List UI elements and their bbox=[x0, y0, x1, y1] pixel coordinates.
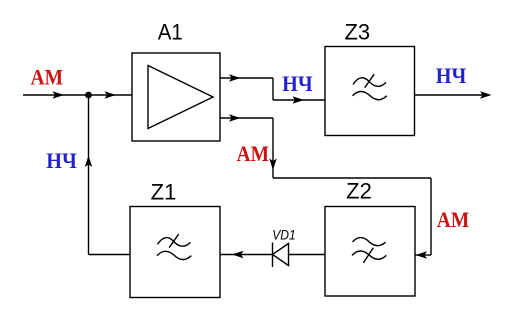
svg-text:АМ: АМ bbox=[237, 141, 270, 166]
diode VD1 bar bbox=[272, 243, 274, 268]
svg-text:АМ: АМ bbox=[31, 65, 64, 90]
filter symbol in Z2 bbox=[352, 238, 386, 263]
wire diode to Z1 bbox=[220, 254, 273, 256]
arrow before A1 input bbox=[105, 91, 117, 98]
op-amp triangle in A1 bbox=[148, 66, 213, 129]
filter symbol in Z1 bbox=[157, 234, 191, 260]
wire into Z3 bbox=[273, 99, 325, 101]
arrow feedback up bbox=[85, 156, 92, 168]
wire into Z2 right edge bbox=[415, 254, 431, 256]
wire feedback vertical from Z1 up to junction bbox=[88, 95, 90, 255]
svg-text:НЧ: НЧ bbox=[46, 148, 77, 173]
block A1 box bbox=[132, 53, 220, 141]
wire input AM to A1 bbox=[23, 94, 132, 96]
block Z3 box bbox=[325, 47, 415, 136]
arrow into Z3 bbox=[293, 96, 305, 103]
wire across to right bbox=[273, 177, 431, 179]
wire feedback horizontal into Z1 bbox=[89, 254, 131, 256]
wire down right side bbox=[430, 178, 432, 255]
wire A1 bottom output horizontal bbox=[220, 117, 273, 119]
svg-text:АМ: АМ bbox=[437, 207, 470, 232]
arrow AM down bbox=[269, 159, 276, 171]
filter symbol in Z3 bbox=[353, 74, 387, 100]
svg-text:НЧ: НЧ bbox=[436, 63, 467, 88]
block Z2 box bbox=[325, 207, 415, 297]
svg-text:A1: A1 bbox=[158, 20, 183, 45]
junction node dot bbox=[85, 92, 92, 99]
arrow A1 bottom out bbox=[229, 114, 241, 121]
arrow on input line bbox=[53, 91, 65, 98]
wire A1 top output horizontal bbox=[220, 77, 273, 79]
arrow NCh output bbox=[480, 91, 492, 98]
svg-text:Z2: Z2 bbox=[346, 179, 372, 204]
arrow A1 top out bbox=[229, 74, 241, 81]
wire A1 bottom output down bbox=[272, 118, 274, 178]
arrow into Z1 bbox=[232, 251, 244, 258]
diode VD1 triangle bbox=[273, 244, 289, 266]
arrow into Z2 bbox=[416, 251, 428, 258]
wire A1 top output down jog bbox=[272, 78, 274, 100]
svg-text:Z1: Z1 bbox=[151, 180, 177, 205]
wire Z3 output bbox=[415, 94, 488, 96]
svg-text:НЧ: НЧ bbox=[282, 71, 313, 96]
svg-text:VD1: VD1 bbox=[272, 227, 296, 243]
wire Z2 output to diode bbox=[289, 254, 326, 256]
svg-text:Z3: Z3 bbox=[344, 20, 370, 45]
block Z1 box bbox=[130, 207, 220, 298]
